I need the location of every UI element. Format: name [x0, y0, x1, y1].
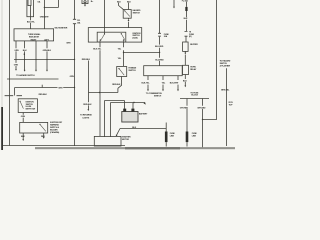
wire W1 (BLK-YEL from C1): [30, 6, 32, 29]
contact left: [104, 33, 105, 34]
left page-edge smudge: [1, 0, 3, 150]
dimmer switch box: [117, 67, 127, 77]
svg-text:BRN-YEL: BRN-YEL: [221, 90, 230, 92]
wire fuse column: [159, 0, 161, 66]
node bus1-D3: [35, 59, 36, 60]
svg-text:GRN: GRN: [14, 50, 19, 52]
node ign-right junction: [123, 52, 124, 53]
arrow comb 2: [162, 90, 164, 92]
wire boxB left down: [22, 133, 24, 140]
terminal right: [123, 39, 125, 41]
connector box C1 inner: [28, 0, 31, 6]
comb drop 2: [162, 76, 164, 80]
arrow lamp stub: [84, 5, 86, 7]
svg-text:BLK: BLK: [184, 18, 188, 20]
svg-text:SWITCH: SWITCH: [133, 13, 141, 15]
combination switch box: [144, 66, 183, 76]
svg-text:BLK: BLK: [132, 127, 136, 129]
bus2 elbow down: [14, 88, 16, 96]
fuse F2 ticks: [158, 33, 161, 36]
svg-text:(CANADA): (CANADA): [50, 131, 59, 134]
comb stub 3: [177, 85, 179, 90]
connector box C1 (top-left outer): [27, 0, 34, 17]
wire hazard down: [128, 18, 130, 27]
dimmer contact: [118, 68, 119, 69]
svg-text:BATTERY: BATTERY: [139, 112, 148, 115]
fusible link bar B: [186, 132, 189, 143]
comb drop 1: [147, 76, 149, 80]
battery terminal right: [131, 109, 134, 112]
svg-text:BLU-RED: BLU-RED: [155, 59, 164, 61]
node bus1-D2: [24, 59, 25, 60]
node fuse-ign junction: [159, 52, 160, 53]
wire horizontal y92: [89, 92, 118, 94]
svg-text:BLK-YEL: BLK-YEL: [142, 83, 151, 85]
svg-text:BLK-YEL: BLK-YEL: [27, 22, 36, 24]
svg-text:GRN: GRN: [70, 76, 75, 78]
svg-text:LINK: LINK: [192, 136, 197, 138]
comb stub 1: [147, 85, 149, 90]
hazard switch box: [123, 10, 131, 19]
svg-text:BUZZER: BUZZER: [190, 44, 198, 46]
wire battery pos: [132, 103, 134, 109]
arrow boxB left: [22, 139, 24, 141]
wire main left column: [74, 0, 76, 146]
arrow reverse lights: [87, 109, 89, 111]
arrow comb 1: [147, 90, 149, 92]
lamp circle: [84, 1, 86, 3]
arrow buzzer: [184, 53, 186, 55]
fusible link bar C: [165, 132, 168, 143]
arrow battery bus: [144, 102, 146, 105]
svg-text:ENTRY SW: ENTRY SW: [26, 109, 36, 111]
wire reverse lights: [88, 61, 90, 110]
arrow hazard down: [128, 20, 130, 22]
wire right B: [226, 68, 228, 146]
arrow horn stub: [184, 86, 186, 88]
ignition key cylinder box A: [18, 99, 37, 113]
svg-text:BLK: BLK: [23, 50, 27, 52]
bus 2 (GRN): [15, 87, 75, 89]
svg-text:GRN-BLK: GRN-BLK: [43, 50, 52, 52]
svg-text:LIGHTS: LIGHTS: [83, 118, 90, 120]
svg-text:BLK: BLK: [117, 2, 121, 4]
svg-text:INDICATOR: INDICATOR: [29, 35, 40, 38]
arrow D1: [15, 69, 17, 71]
wire ignition feed: [104, 0, 106, 34]
wire drop D1 (GRN): [15, 41, 17, 60]
wire drop D3: [35, 41, 37, 71]
battery body: [122, 112, 138, 123]
svg-text:BLK: BLK: [127, 2, 131, 4]
switch contact box A: [20, 101, 21, 102]
ignition switch outer box: [88, 28, 141, 42]
node bus1-main: [74, 59, 75, 60]
svg-text:& FLASHER: & FLASHER: [220, 65, 231, 68]
lamp box top: [82, 0, 88, 4]
arrow D4: [46, 70, 48, 72]
arrow stub x174: [173, 7, 175, 9]
comb stub 2: [162, 85, 164, 90]
hazard switch feed right: [128, 3, 130, 10]
wire boxB right down: [43, 133, 45, 137]
left border line: [9, 0, 11, 146]
wire ign left terminal down: [99, 41, 101, 136]
svg-text:TO REVERSE: TO REVERSE: [80, 114, 92, 116]
svg-text:GRN: GRN: [58, 88, 63, 90]
ignition switch inner box: [97, 32, 126, 42]
wire W2 vertical: [43, 0, 45, 29]
hazard switch blade: [125, 11, 130, 17]
svg-text:GRN-WHT: GRN-WHT: [40, 16, 50, 18]
svg-text:BLK-WHT: BLK-WHT: [170, 83, 179, 85]
comb drop 3: [177, 76, 179, 80]
wire dimmer down: [118, 77, 122, 93]
svg-text:GRY-RED: GRY-RED: [197, 107, 206, 109]
svg-text:RELAY: RELAY: [190, 68, 197, 71]
svg-text:SWITCH: SWITCH: [128, 70, 136, 72]
wire horn stub arrow: [184, 82, 186, 86]
battery terminal left: [123, 109, 126, 112]
bus 1: [14, 59, 75, 61]
svg-text:GRY-RED: GRY-RED: [180, 107, 189, 109]
wire drop D2 (BLK): [24, 41, 26, 71]
stub wire x174: [173, 0, 175, 7]
contact right: [121, 33, 122, 34]
node y92 junction: [99, 92, 100, 93]
wire horn down: [184, 75, 186, 80]
svg-text:RED-BLK: RED-BLK: [83, 104, 92, 106]
svg-text:BLU-RED: BLU-RED: [155, 46, 164, 48]
arrow comb 3: [177, 90, 179, 92]
svg-text:TO HAZARD SWITCH: TO HAZARD SWITCH: [16, 74, 35, 77]
wire D1 lower stub: [15, 60, 17, 70]
node battery junction: [133, 102, 134, 103]
bottom border line: [3, 145, 125, 147]
fuse block bus: [180, 98, 209, 100]
node W2 junction: [44, 7, 45, 8]
hazard contact: [124, 10, 125, 11]
svg-text:TACHOMETER: TACHOMETER: [54, 27, 67, 30]
node bus2-main: [74, 87, 75, 88]
terminal left: [100, 39, 102, 41]
svg-text:RED-BLK: RED-BLK: [82, 59, 91, 61]
fuse block drop 2: [202, 99, 204, 148]
wire instrument bus y79: [7, 78, 59, 80]
turn signal indicator box: [14, 29, 54, 41]
wire horizontal to fuse wire: [124, 52, 160, 54]
horn relay box: [183, 65, 189, 74]
ignition key warning box B: [20, 122, 48, 133]
wire ign right terminal down: [123, 41, 125, 66]
battery bus: [111, 102, 145, 104]
bus2 tick up: [41, 85, 43, 88]
wire BLK starter: [116, 129, 166, 136]
svg-text:MOTOR: MOTOR: [122, 139, 129, 141]
svg-text:SWITCH: SWITCH: [154, 96, 162, 98]
wire to buzzer: [185, 37, 187, 42]
svg-text:(GAS): (GAS): [132, 37, 138, 40]
wire to horn relay: [184, 55, 186, 66]
svg-text:GRN: GRN: [21, 116, 26, 118]
fuse block drop 1: [186, 99, 188, 147]
wire battery bus corner down: [110, 103, 112, 138]
bottom gray band: [35, 147, 235, 149]
arrow D3: [35, 70, 37, 72]
node jog junction: [202, 119, 203, 120]
svg-text:GRN: GRN: [66, 42, 71, 44]
fuse F1 ticks: [73, 19, 76, 23]
arrow starter wire: [116, 135, 118, 137]
dashed lead: [5, 95, 22, 97]
svg-text:RED-BLK: RED-BLK: [39, 94, 48, 96]
wire W2 jog: [44, 0, 58, 8]
starter motor box: [94, 136, 121, 146]
switch contact box B: [39, 124, 40, 125]
fusible link bar C stub: [165, 123, 167, 147]
hazard switch feed left: [119, 3, 124, 10]
arrow D2: [24, 70, 26, 72]
svg-text:BLOCK: BLOCK: [191, 95, 198, 97]
wire drop D4 (GRN-BLK): [46, 41, 48, 71]
wire right border column: [203, 0, 217, 120]
wire battery neg path: [105, 101, 125, 138]
svg-text:LINK: LINK: [170, 136, 175, 138]
arrow boxB right: [43, 137, 45, 139]
svg-text:FL 30A: FL 30A: [182, 0, 189, 3]
wire lamp stub: [84, 4, 86, 6]
node bus1-D4: [46, 59, 47, 60]
svg-text:BLK-YEL: BLK-YEL: [93, 49, 102, 51]
fusible link bar A: [185, 7, 187, 11]
svg-text:RED-BLK: RED-BLK: [112, 84, 121, 86]
wire right column A: [186, 2, 188, 31]
buzzer box: [183, 42, 189, 51]
wire buzzer down: [184, 51, 186, 53]
fuse F3 ticks: [185, 31, 188, 36]
wire boxA-boxB: [22, 113, 24, 123]
